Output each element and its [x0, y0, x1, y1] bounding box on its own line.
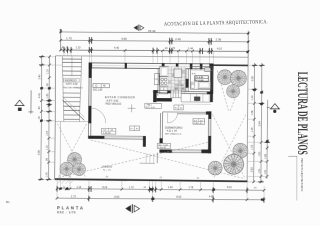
- estar south wall solid left: [88, 136, 104, 139]
- dorm south window band: [172, 149, 201, 151]
- tree cluster bottom-left: [66, 151, 83, 168]
- right dim line B: [260, 63, 263, 183]
- hall steps: [171, 89, 182, 102]
- tree cluster top-right: [218, 70, 233, 85]
- right dim line A: [253, 63, 256, 183]
- estar south tag box 1: [102, 128, 116, 135]
- estar south wall pier: [143, 136, 146, 147]
- dorm door tag box: [174, 105, 183, 110]
- svg-text:4.40: 4.40: [114, 47, 119, 50]
- bottom dim line 2: [57, 198, 264, 200]
- svg-text:8.00: 8.00: [114, 196, 119, 199]
- grass tufts: [69, 176, 200, 179]
- svg-text:1.70: 1.70: [129, 186, 134, 189]
- bathroom toilet: [191, 82, 195, 84]
- lot boundary bottom wall: [55, 179, 248, 181]
- left dim stubs: [41, 57, 62, 180]
- svg-text:1.51: 1.51: [264, 169, 267, 174]
- estar south window band: [104, 135, 145, 137]
- dorm west wall chunk: [159, 138, 162, 147]
- tick lot top-right corner: [246, 51, 248, 53]
- section line left: [30, 90, 32, 113]
- bottom dim line 1: [57, 189, 264, 191]
- svg-text:8.00: 8.00: [176, 196, 181, 199]
- kitchen floor tile grid: [168, 67, 186, 94]
- svg-text:4.90: 4.90: [121, 37, 127, 41]
- entry door arc: [91, 108, 106, 123]
- west wall solid segment upper: [89, 63, 92, 78]
- top dimension ticks: [59, 31, 249, 53]
- left dim line B: [48, 55, 51, 180]
- right strip dashed X: [212, 114, 245, 178]
- hall north pier: [153, 90, 156, 102]
- svg-text:1.78: 1.78: [188, 186, 193, 189]
- svg-text:4.10: 4.10: [217, 47, 222, 50]
- west house wall faces: [88, 63, 91, 139]
- svg-text:LECTURA DE PLANOS: LECTURA DE PLANOS: [294, 72, 310, 155]
- left dim labels: [37, 69, 50, 177]
- svg-text:2.36: 2.36: [250, 76, 254, 82]
- bathroom shower: [198, 82, 210, 89]
- svg-text:PLANTA: PLANTA: [57, 205, 84, 210]
- svg-text:NPT VINILICO 4: NPT VINILICO 4: [165, 134, 182, 136]
- bathroom outline: [190, 67, 212, 90]
- kitchen-bath wall: [185, 69, 187, 92]
- kitchen west wall faces: [157, 68, 159, 95]
- svg-text:1.58: 1.58: [251, 110, 254, 115]
- facade columns: [89, 63, 214, 70]
- svg-text:2.55x90: 2.55x90: [103, 133, 112, 135]
- svg-text:1.36: 1.36: [264, 154, 267, 159]
- svg-text:DORMITORIO: DORMITORIO: [165, 125, 182, 129]
- estar center cross: [128, 104, 136, 112]
- patio top wall: [213, 64, 248, 66]
- top dimension extension line right: [247, 31, 249, 57]
- svg-text:COCINA: COCINA: [175, 84, 184, 87]
- kitchen shaded tiles: [168, 70, 185, 91]
- north arrow bottom: [125, 204, 139, 213]
- left dim ticks: [40, 55, 51, 180]
- svg-text:1.70: 1.70: [251, 144, 254, 149]
- patio dashed V right: [230, 72, 245, 112]
- section marker right: [267, 104, 280, 113]
- right dim ticks: [252, 64, 269, 183]
- top dimension extension line left: [60, 30, 62, 51]
- bathroom sink: [205, 68, 211, 72]
- svg-text:8.10: 8.10: [227, 186, 232, 189]
- svg-text:2.82: 2.82: [250, 167, 254, 173]
- north arrow top: [133, 24, 143, 30]
- svg-text:PISO DE TERRAZO: PISO DE TERRAZO: [63, 86, 83, 89]
- hall tag box: [145, 103, 162, 109]
- dorm window tag box south: [157, 143, 170, 149]
- kitchen counter fridge: [160, 66, 169, 76]
- stair treads upper flight: [62, 59, 82, 75]
- stair break cut lines: [62, 100, 84, 120]
- bottom dim ticks row1: [56, 187, 266, 192]
- terrace edge by hall: [140, 162, 155, 164]
- stair rail middle: [71, 56, 73, 76]
- svg-text:JARDIN: JARDIN: [101, 166, 112, 169]
- side sub line: [288, 155, 297, 157]
- svg-text:15.44: 15.44: [148, 29, 156, 33]
- svg-text:INGRESO: INGRESO: [65, 78, 77, 82]
- bottom dim labels row2: [71, 195, 215, 200]
- kitchen sink: [160, 86, 168, 94]
- dorm east wall chunk lower: [208, 136, 211, 153]
- closet line: [181, 103, 211, 105]
- svg-text:4.41: 4.41: [37, 92, 41, 98]
- svg-text:PROYECTO ARQUITECTONICO: PROYECTO ARQUITECTONICO: [300, 159, 304, 192]
- bottom dim ticks row2: [56, 197, 266, 201]
- lot boundary top: [56, 56, 248, 58]
- bathroom tag box: [195, 76, 209, 82]
- svg-text:N.P.T. 4.00: N.P.T. 4.00: [66, 83, 78, 86]
- svg-text:4.21 x .04: 4.21 x .04: [167, 131, 178, 133]
- svg-text:ESC : 1/75: ESC : 1/75: [57, 210, 76, 214]
- dorm door arc: [167, 113, 177, 123]
- top dimension extension stubs: [64, 42, 214, 65]
- svg-text:CL.4.80: CL.4.80: [195, 76, 204, 79]
- svg-text:1.40: 1.40: [45, 172, 48, 177]
- dorm window tag box east: [193, 119, 205, 125]
- svg-text:3.94: 3.94: [257, 121, 261, 127]
- svg-text:1.91: 1.91: [258, 151, 261, 156]
- hall north wall chunk: [157, 98, 172, 102]
- svg-text:1.73: 1.73: [71, 195, 76, 198]
- west wall solid segment lower: [88, 106, 91, 124]
- stair rail right: [79, 56, 81, 121]
- svg-text:1.10: 1.10: [76, 186, 81, 189]
- garden long dashed diagonal 2: [59, 141, 210, 179]
- top dimension line 3: [61, 50, 249, 51]
- svg-text:1.70: 1.70: [251, 127, 254, 132]
- stair treads lower flight: [63, 93, 81, 120]
- ground hatch below lot wall: [57, 180, 73, 184]
- top dimension tick posts: [64, 37, 212, 54]
- svg-text:1.44: 1.44: [46, 130, 49, 135]
- dorm north wall east chunk: [206, 111, 211, 114]
- bottom dim tick posts: [57, 186, 264, 203]
- dorm south wall east chunk: [201, 149, 211, 153]
- stair rail left: [62, 56, 65, 121]
- bath south wall: [181, 90, 213, 92]
- east house wall solid: [210, 66, 213, 94]
- svg-text:1.05: 1.05: [46, 93, 49, 98]
- kitchen south wall: [153, 90, 171, 92]
- facade wall inner face: [89, 67, 214, 70]
- hall floor line: [181, 101, 211, 103]
- bottom dim stubs: [57, 180, 264, 200]
- svg-text:B.E.1.80: B.E.1.80: [93, 89, 103, 92]
- svg-text:2.40: 2.40: [175, 37, 181, 41]
- top dimension line 1: [61, 32, 249, 33]
- west wall window tag box: [93, 84, 110, 92]
- dorm north wall faces: [163, 111, 209, 113]
- title: ACOTACION DE LA PLANTA ARQUITECTONICA: [164, 19, 268, 27]
- estar south tag box 2: [130, 126, 140, 131]
- svg-text:8.20: 8.20: [102, 186, 107, 189]
- tree cluster bottom-right: [231, 141, 250, 160]
- bottom dim blobs: [59, 187, 264, 201]
- stair landing bottom line: [55, 121, 88, 123]
- garden long dashed diagonal 1: [91, 140, 245, 179]
- patio dashed V left: [217, 71, 229, 112]
- svg-text:1.50x.90: 1.50x.90: [158, 147, 167, 149]
- kitchen wall vertical tag box: [154, 74, 159, 85]
- svg-text:N.P.T. 4.05: N.P.T. 4.05: [107, 100, 119, 103]
- right dim labels: [250, 76, 268, 175]
- closet dark blob: [194, 97, 200, 101]
- dorm south wall west chunk: [159, 149, 172, 152]
- svg-text:S.H.: S.H.: [192, 73, 197, 75]
- top dimension line 2: [61, 40, 249, 41]
- right dim tick posts: [251, 65, 271, 182]
- bathroom top shelf line: [191, 69, 213, 71]
- facade wall outer face: [89, 62, 214, 65]
- bottom dim labels row1: [62, 185, 257, 191]
- right dim blobs: [253, 89, 269, 143]
- garden strip edge line: [59, 122, 61, 179]
- svg-text:1.40: 1.40: [251, 95, 254, 100]
- svg-text:N. + .70: N. + .70: [103, 170, 111, 172]
- svg-text:N.P.T. 4.05: N.P.T. 4.05: [146, 107, 155, 109]
- svg-text:1.10: 1.10: [46, 69, 49, 74]
- left strip dashed X: [57, 124, 86, 178]
- ingreso label box: [63, 78, 79, 82]
- kitchen floor wash: [168, 67, 186, 94]
- right dim line C: [266, 100, 269, 179]
- svg-text:PISO VINILICO: PISO VINILICO: [105, 104, 121, 106]
- right dim stubs: [247, 65, 268, 182]
- svg-text:1.10: 1.10: [46, 145, 49, 150]
- lot boundary right: [246, 57, 249, 181]
- svg-text:1.40: 1.40: [168, 186, 173, 189]
- dim end dots: [60, 29, 249, 52]
- facade glass line: [91, 65, 209, 68]
- svg-text:1.73: 1.73: [66, 36, 72, 40]
- svg-text:1.51: 1.51: [258, 168, 261, 173]
- svg-text:1.40: 1.40: [38, 74, 42, 80]
- kitchen table: [174, 69, 182, 78]
- svg-text:1.44: 1.44: [188, 47, 193, 50]
- dorm east window band: [207, 119, 209, 136]
- svg-text:1.10: 1.10: [76, 46, 81, 49]
- dorm west wall faces: [159, 113, 161, 139]
- section marker left: [14, 100, 24, 111]
- kitchen stove burners: [160, 77, 169, 87]
- svg-text:2.36: 2.36: [216, 37, 222, 41]
- lot boundary left: [54, 56, 57, 179]
- left dim line A: [40, 55, 43, 180]
- west wall window mid line: [89, 79, 91, 106]
- svg-text:1.46.1.40: 1.46.1.40: [194, 123, 204, 125]
- closet dividers: [190, 94, 209, 102]
- left dim tick posts: [38, 57, 52, 180]
- svg-text:5.90: 5.90: [37, 149, 41, 155]
- svg-text:4.85: 4.85: [209, 196, 214, 199]
- left dim blobs: [40, 87, 51, 122]
- dorm east wall chunk upper: [208, 111, 211, 119]
